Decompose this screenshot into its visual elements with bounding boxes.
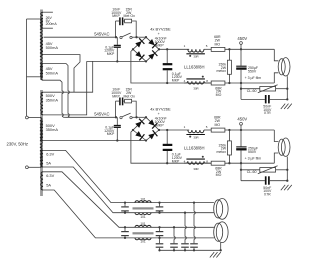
wire lower AC rail channel1 xyxy=(87,60,146,62)
capacitor 50nF 100V channel1 xyxy=(241,95,288,115)
wire heater ground rail xyxy=(160,249,221,251)
wire secA bottom up to ch1 lower AC rail xyxy=(43,61,87,115)
svg-text:+: + xyxy=(158,112,160,116)
capacitor Y ground from pair1 line2 xyxy=(181,212,189,252)
svg-text:550V: 550V xyxy=(248,69,257,73)
svg-text:MO: MO xyxy=(214,42,220,46)
svg-text:500mA: 500mA xyxy=(46,45,59,50)
heater connector upper xyxy=(214,199,228,220)
wire secA top up to ch1 lower AC rail xyxy=(43,61,93,92)
capacitor Y ground from pair2 line1 xyxy=(170,226,178,251)
transformer T1 core xyxy=(40,10,43,81)
T2 secondary 6.3V 5A (D) xyxy=(41,172,55,190)
svg-text:MKP: MKP xyxy=(156,43,164,47)
label 4x BYV26E channel2 xyxy=(150,107,171,128)
svg-text:350mA: 350mA xyxy=(46,127,59,132)
svg-text:MKP: MKP xyxy=(172,79,180,83)
wire heater 6.3V D-bottom diagonal xyxy=(43,190,214,238)
capacitor 50nF 100V channel2 xyxy=(241,176,288,196)
heater connector lower xyxy=(214,222,228,252)
svg-text:X7R: X7R xyxy=(264,111,271,115)
snubber resistor 15R 2W channel1 xyxy=(123,7,136,37)
snubber capacitor 10nF 1000V MKP channel1 xyxy=(111,7,122,37)
wire DC+ rail channel2 xyxy=(159,129,189,131)
wire sec2 bottom jog down to secA top lead xyxy=(43,55,80,93)
earth ground channel2 xyxy=(281,185,292,190)
svg-text:30R: 30R xyxy=(193,55,198,59)
output connector to amp channel2 xyxy=(274,130,290,181)
resistor 150k 2W bleeder channel1 xyxy=(216,48,231,84)
T2 primary winding xyxy=(40,118,42,168)
label 4x BYV26E channel1 xyxy=(150,27,171,48)
mains terminals 230V 50Hz xyxy=(7,116,40,169)
output connector to amp channel1 xyxy=(274,49,290,99)
snubber capacitor 10nF 1000V MKP channel2 xyxy=(111,87,122,117)
svg-text:MKP: MKP xyxy=(172,159,180,163)
svg-text:metox: metox xyxy=(216,69,226,73)
svg-text:metox: metox xyxy=(216,150,226,154)
switch S channel1 xyxy=(115,33,146,39)
svg-text:550V: 550V xyxy=(248,150,257,154)
thermistor CL-60 channel1 xyxy=(240,83,289,99)
svg-text:MO: MO xyxy=(214,123,220,127)
svg-text:450V: 450V xyxy=(237,117,247,122)
capacitor 250uF 550V + 3uF film channel2 xyxy=(236,130,261,164)
snubber resistor 15R 2W channel2 xyxy=(123,87,136,117)
svg-text:545VAC: 545VAC xyxy=(94,32,109,37)
svg-text:LL1638/8H: LL1638/8H xyxy=(184,65,205,70)
choke L1 bottom winding channel1 xyxy=(184,76,212,91)
svg-text:+ 3 µF film: + 3 µF film xyxy=(245,76,262,80)
wire 545VAC rail channel2 xyxy=(62,112,116,118)
bridge rectifier 4x BYV26E channel2 xyxy=(132,116,160,142)
terminal 450V channel1 xyxy=(237,36,247,51)
svg-text:230V, 50Hz: 230V, 50Hz xyxy=(7,142,29,147)
resistor 68R 2W MO top channel2 xyxy=(204,116,274,132)
svg-text:CL-60: CL-60 xyxy=(247,89,257,93)
svg-text:MKP: MKP xyxy=(107,132,115,136)
svg-text:101: 101 xyxy=(140,215,146,219)
capacitor 0.1uF 1200V MKP across AC channel1 xyxy=(104,37,121,62)
resistor 150k 2W bleeder channel2 xyxy=(216,129,231,165)
bridge rectifier 4x BYV26E channel1 xyxy=(132,36,160,63)
svg-text:500mA: 500mA xyxy=(46,71,59,76)
svg-text:Met Ox: Met Ox xyxy=(124,14,136,18)
svg-text:MKP: MKP xyxy=(112,94,120,98)
wire heater 6.3V C-bottom diagonal xyxy=(43,167,214,213)
common-mode choke 101 pair1 xyxy=(133,197,154,218)
common-mode choke 101 pair2 xyxy=(133,222,154,243)
svg-text:LL1638/8H: LL1638/8H xyxy=(184,145,205,150)
choke L1 LL1638/8H top winding channel2 xyxy=(184,125,208,150)
svg-text:MKP: MKP xyxy=(112,14,120,18)
svg-text:X7R: X7R xyxy=(264,192,271,196)
earth ground heater xyxy=(210,252,221,257)
terminal 450V channel2 xyxy=(237,117,247,132)
choke L1 LL1638/8H top winding channel1 xyxy=(184,44,208,69)
wire heater 6.3V D-top diagonal xyxy=(43,172,214,228)
T1 primary winding xyxy=(27,19,43,116)
wire lower AC rail channel2 xyxy=(43,140,146,142)
thermistor CL-60 channel2 xyxy=(240,163,289,181)
resistor 68R 2W MO bottom channel1 xyxy=(211,81,225,97)
svg-text:30R: 30R xyxy=(193,167,198,171)
svg-text:5A: 5A xyxy=(46,182,51,187)
capacitor heater output bypass pair1 xyxy=(156,201,164,213)
capacitor heater output bypass pair2 xyxy=(156,226,164,239)
capacitor 0.1uF 1200V MKP across AC channel2 xyxy=(104,117,121,141)
capacitor 0.1uF 1200V MKP across DC channel2 xyxy=(163,129,183,165)
svg-text:MO: MO xyxy=(216,93,222,97)
svg-text:MKP: MKP xyxy=(107,52,115,56)
svg-text:30R: 30R xyxy=(193,135,198,139)
resistor 68R 2W MO bottom channel2 xyxy=(211,161,225,177)
resistor 68R 2W MO top channel1 xyxy=(204,35,274,51)
T2 secondary 500V 350mA (B) xyxy=(41,121,59,141)
svg-text:4x BYV26E: 4x BYV26E xyxy=(150,27,171,32)
capacitor Y ground from pair1 line1 xyxy=(190,201,198,251)
svg-text:CL-60: CL-60 xyxy=(247,170,257,174)
wire sec3 top down to ch2 545VAC rail xyxy=(43,64,69,117)
earth ground channel1 xyxy=(281,104,292,109)
svg-text:30R: 30R xyxy=(193,87,198,91)
capacitor heater input bypass pair2 xyxy=(121,226,129,239)
svg-text:MO: MO xyxy=(216,173,222,177)
transformer T2 core xyxy=(40,90,43,196)
svg-text:545VAC: 545VAC xyxy=(94,112,109,117)
switch S channel2 xyxy=(115,113,146,119)
svg-text:6.3V: 6.3V xyxy=(46,152,54,157)
capacitor Y ground from pair2 line2 xyxy=(156,238,164,252)
svg-text:MKP: MKP xyxy=(156,124,164,128)
wire heater 6.3V C-top diagonal xyxy=(43,150,214,202)
choke L1 bottom winding channel2 xyxy=(184,156,212,171)
capacitor 250uF 550V + 3uF film channel1 xyxy=(236,49,261,84)
T2 secondary 500V 350mA (A) xyxy=(41,92,59,115)
T2 secondary 6.3V 5A (C) xyxy=(41,150,55,167)
capacitor 0.1uF 1200V MKP across DC channel1 xyxy=(163,48,183,84)
T1 secondary 45V 500mA (ch2 chain) xyxy=(41,64,59,81)
wire DC- from bridge channel1 xyxy=(131,49,274,83)
svg-text:+: + xyxy=(158,32,160,36)
svg-text:Met Ox: Met Ox xyxy=(124,94,136,98)
wire DC- from bridge channel2 xyxy=(131,130,274,163)
svg-text:101: 101 xyxy=(140,240,146,244)
wire DC+ rail channel1 xyxy=(159,48,189,50)
T1 secondary 45V 500mA (ch1 hot) xyxy=(41,38,59,55)
T1 secondary 26V 200mA xyxy=(41,12,58,28)
svg-text:450V: 450V xyxy=(237,36,247,41)
svg-text:200mA: 200mA xyxy=(46,22,58,26)
svg-text:5A: 5A xyxy=(46,161,51,166)
svg-text:+ 3 µF film: + 3 µF film xyxy=(245,157,262,161)
svg-text:6.3V: 6.3V xyxy=(46,173,54,178)
wire sec3 bottom down to ch2 545VAC rail xyxy=(43,80,63,116)
capacitor heater input bypass pair1 xyxy=(121,201,129,213)
wire 545VAC rail channel1 xyxy=(44,32,116,38)
svg-text:350mA: 350mA xyxy=(46,98,59,103)
svg-text:4x BYV26E: 4x BYV26E xyxy=(150,107,171,112)
